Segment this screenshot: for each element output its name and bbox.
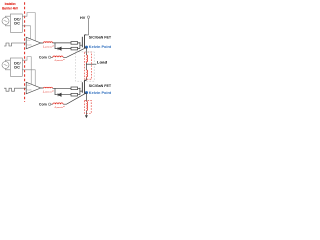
- svg-text:Com: Com: [39, 56, 48, 60]
- svg-text:Barrier 4kV: Barrier 4kV: [2, 6, 18, 11]
- svg-text:SiC/GaN FET: SiC/GaN FET: [89, 84, 112, 88]
- svg-text:Lₚₒᵣₒₛᵢₛᵘᵗ: Lₚₒᵣₒₛᵢₛᵘᵗ: [43, 89, 54, 93]
- svg-text:Kelvin Point: Kelvin Point: [89, 45, 112, 49]
- svg-text:Lₚₒᵣₒₛᵢₛᵘᵗ: Lₚₒᵣₒₛᵢₛᵘᵗ: [55, 58, 65, 62]
- svg-text:DC: DC: [14, 65, 20, 69]
- svg-text:Kelvin Point: Kelvin Point: [89, 91, 112, 95]
- svg-text:Com: Com: [39, 103, 48, 107]
- svg-text:Lₚₒᵣₒₛᵢₛᵘᵗ: Lₚₒᵣₒₛᵢₛᵘᵗ: [55, 105, 65, 109]
- svg-text:HV: HV: [80, 15, 86, 20]
- svg-text:Lₚₒᵣₒₛᵢₛᵘᵗ: Lₚₒᵣₒₛᵢₛᵘᵗ: [43, 44, 54, 48]
- svg-text:SiC/GaN FET: SiC/GaN FET: [89, 36, 112, 40]
- svg-text:Com: Com: [27, 90, 32, 92]
- svg-text:DC: DC: [14, 21, 20, 25]
- svg-text:Load: Load: [97, 60, 108, 64]
- svg-text:Com: Com: [27, 45, 32, 47]
